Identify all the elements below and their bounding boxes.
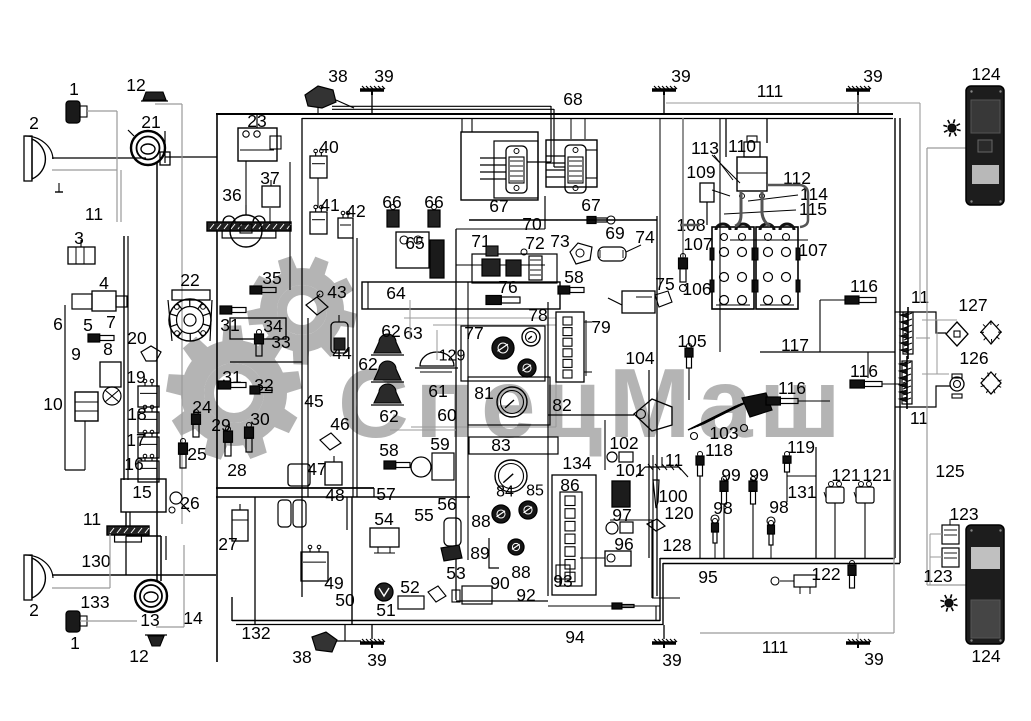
svg-text:79: 79 [591,317,610,337]
svg-text:10: 10 [43,394,63,414]
svg-text:52: 52 [400,577,419,597]
svg-text:128: 128 [662,535,691,555]
svg-text:61: 61 [428,381,447,401]
svg-text:45: 45 [304,391,323,411]
svg-text:116: 116 [850,276,878,296]
svg-text:1: 1 [69,79,79,99]
svg-text:19: 19 [126,367,145,387]
svg-text:89: 89 [470,543,489,563]
svg-text:39: 39 [374,66,393,86]
svg-text:111: 111 [762,637,789,657]
svg-text:39: 39 [662,650,681,670]
svg-text:57: 57 [376,484,395,504]
svg-text:64: 64 [386,283,406,303]
svg-text:67: 67 [581,195,600,215]
svg-text:6: 6 [53,314,63,334]
svg-text:27: 27 [218,534,237,554]
svg-text:84: 84 [496,484,514,501]
svg-text:95: 95 [698,567,717,587]
svg-text:73: 73 [550,231,569,251]
svg-text:14: 14 [183,608,203,628]
svg-text:85: 85 [526,483,544,500]
svg-text:70: 70 [522,214,542,234]
svg-text:78: 78 [528,305,547,325]
svg-text:28: 28 [227,460,246,480]
svg-text:12: 12 [126,75,145,95]
svg-text:26: 26 [180,493,199,513]
svg-text:75: 75 [655,274,674,294]
svg-text:1: 1 [70,633,80,653]
svg-text:134: 134 [562,453,591,473]
svg-text:115: 115 [799,199,827,219]
svg-text:39: 39 [863,66,882,86]
svg-text:132: 132 [241,623,270,643]
svg-text:58: 58 [379,440,398,460]
svg-text:40: 40 [319,137,339,157]
svg-text:39: 39 [864,649,883,669]
svg-text:9: 9 [71,344,81,364]
svg-text:109: 109 [686,162,715,182]
svg-text:25: 25 [187,444,206,464]
svg-text:11: 11 [85,204,103,224]
svg-text:107: 107 [798,240,827,260]
svg-text:119: 119 [787,437,815,457]
svg-text:104: 104 [625,348,654,368]
svg-text:37: 37 [260,168,279,188]
svg-text:11: 11 [910,408,928,428]
svg-text:102: 102 [609,433,638,453]
svg-text:69: 69 [605,223,624,243]
svg-text:2: 2 [29,600,39,620]
svg-text:74: 74 [635,227,655,247]
svg-text:55: 55 [414,505,433,525]
svg-text:72: 72 [525,233,544,253]
svg-text:54: 54 [374,509,394,529]
svg-text:88: 88 [511,562,530,582]
svg-text:92: 92 [516,585,535,605]
svg-text:39: 39 [367,650,386,670]
svg-text:38: 38 [328,66,347,86]
svg-text:81: 81 [474,383,493,403]
svg-text:67: 67 [489,196,508,216]
svg-text:4: 4 [99,273,109,293]
svg-text:62: 62 [379,406,398,426]
svg-text:8: 8 [103,339,113,359]
svg-text:2: 2 [29,113,39,133]
svg-text:121: 121 [831,465,860,485]
svg-text:126: 126 [959,348,988,368]
svg-text:62: 62 [358,354,377,374]
svg-text:88: 88 [471,511,490,531]
svg-text:76: 76 [498,277,517,297]
svg-text:38: 38 [292,647,311,667]
svg-text:7: 7 [106,312,116,332]
svg-text:124: 124 [971,64,1000,84]
svg-text:60: 60 [437,405,457,425]
svg-text:63: 63 [403,323,422,343]
svg-text:3: 3 [74,228,84,248]
svg-text:118: 118 [705,440,733,460]
svg-text:124: 124 [971,646,1000,666]
svg-text:123: 123 [949,504,978,524]
svg-text:68: 68 [563,89,582,109]
svg-text:53: 53 [446,563,465,583]
svg-text:5: 5 [83,315,93,335]
svg-text:111: 111 [757,81,784,101]
svg-text:20: 20 [127,328,147,348]
svg-text:39: 39 [671,66,690,86]
svg-text:130: 130 [81,551,110,571]
svg-text:35: 35 [262,268,281,288]
svg-text:94: 94 [565,627,585,647]
svg-text:110: 110 [728,136,756,156]
svg-text:22: 22 [180,270,199,290]
svg-text:123: 123 [923,566,952,586]
svg-text:107: 107 [683,234,712,254]
svg-text:98: 98 [769,497,788,517]
svg-text:21: 21 [141,112,160,132]
svg-text:46: 46 [330,414,349,434]
svg-text:120: 120 [664,503,693,523]
svg-text:62: 62 [381,321,400,341]
svg-text:133: 133 [80,592,109,612]
svg-text:90: 90 [490,573,510,593]
svg-text:15: 15 [132,482,151,502]
svg-text:33: 33 [271,332,290,352]
svg-text:12: 12 [129,646,148,666]
svg-text:116: 116 [778,378,806,398]
svg-text:59: 59 [430,434,449,454]
svg-text:125: 125 [935,461,964,481]
svg-text:11: 11 [83,509,101,529]
svg-text:43: 43 [327,282,346,302]
svg-text:51: 51 [376,600,395,620]
svg-text:131: 131 [787,482,816,502]
svg-text:83: 83 [491,435,510,455]
svg-text:30: 30 [250,409,270,429]
svg-text:127: 127 [958,295,987,315]
svg-text:113: 113 [691,138,719,158]
svg-text:36: 36 [222,185,241,205]
svg-text:101: 101 [615,460,644,480]
svg-text:82: 82 [552,395,571,415]
svg-text:16: 16 [124,454,143,474]
svg-text:116: 116 [850,361,878,381]
svg-text:58: 58 [564,267,583,287]
